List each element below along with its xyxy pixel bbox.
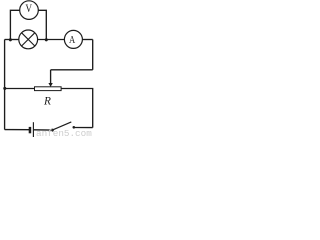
wire right vertical down to slider level — [92, 40, 94, 70]
wire main left segment to lamp — [5, 39, 19, 41]
wire resistor right terminal to right rail — [61, 89, 93, 128]
wire lamp to ammeter — [38, 39, 65, 41]
wire battery to switch pivot — [34, 129, 52, 131]
battery cell long thin plate — [32, 122, 34, 137]
node junction left (voltmeter branch / main wire) — [9, 38, 12, 41]
resistor R box — [35, 87, 62, 91]
wire voltmeter right to down corner — [38, 10, 46, 39]
switch S pivot dot — [51, 129, 54, 132]
node junction right (voltmeter branch / main wire) — [45, 38, 48, 41]
svg-text:anfen5.com: anfen5.com — [36, 128, 92, 137]
wire switch to bottom-right corner — [74, 127, 93, 129]
wire ammeter to top-right corner — [82, 39, 92, 41]
svg-text:A: A — [69, 34, 75, 46]
wire slider horizontal — [51, 69, 93, 71]
lamp L1 cross — [22, 33, 35, 46]
wire left rail vertical — [4, 40, 6, 130]
rheostat slider arrowhead — [48, 83, 52, 87]
svg-text:R: R — [43, 95, 51, 107]
switch S blade (open) — [52, 122, 71, 130]
wire voltmeter branch left (vertical + horizontal to voltmeter) — [10, 10, 19, 39]
wire resistor left terminal — [5, 88, 35, 90]
lamp L1 circle — [19, 30, 38, 49]
ammeter A circle — [64, 30, 82, 48]
svg-text:V: V — [25, 3, 32, 15]
switch S right contact dot — [73, 126, 76, 129]
wire bottom left to battery — [5, 129, 29, 131]
battery cell short thick plate — [29, 127, 32, 133]
wire slider vertical — [50, 70, 52, 83]
node junction (left rail / resistor wire) — [3, 87, 6, 90]
voltmeter V circle — [20, 1, 39, 20]
